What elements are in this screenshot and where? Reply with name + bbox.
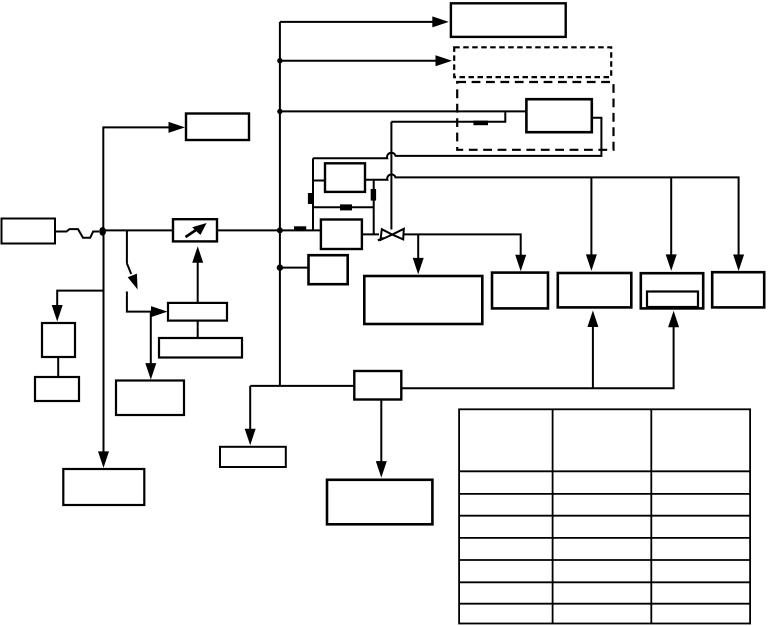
wire squiggle (break symbol) xyxy=(55,229,99,238)
wire main line dot to meter xyxy=(103,229,173,231)
box BC xyxy=(220,447,286,467)
fuse bar middle xyxy=(340,204,352,210)
junction dot bus/side box xyxy=(277,264,283,270)
junction dot at input node xyxy=(99,227,106,236)
wire meter to main bus and lower box xyxy=(217,229,321,231)
wire below switch to box M1 xyxy=(127,292,152,312)
box row 3 xyxy=(558,273,632,307)
box L1 xyxy=(42,323,75,357)
wire box M1 to box M2 xyxy=(197,321,199,338)
box source (input) xyxy=(2,219,56,244)
wire down arrow to box3 xyxy=(590,177,592,255)
wire up branch to box3 xyxy=(592,326,594,388)
junction dot bus/arrow2 xyxy=(277,58,282,63)
wire down arrow to box BC xyxy=(249,386,251,430)
wire valve to box2 with branch xyxy=(404,234,520,255)
box top-right xyxy=(451,3,566,37)
main vertical bus xyxy=(279,22,281,386)
wire middle rung xyxy=(313,206,374,208)
wire second arrow to dotted box xyxy=(280,60,436,62)
switch branch (curved arrow) xyxy=(126,230,128,263)
box BM xyxy=(327,480,432,525)
meter M1 xyxy=(173,219,217,241)
junction dot bus/main line xyxy=(277,227,283,233)
box upper small xyxy=(325,163,365,192)
fuse bar on wire xyxy=(294,226,306,230)
box row 5 xyxy=(712,272,764,307)
table xyxy=(459,409,750,623)
wire branch down to big box xyxy=(417,234,419,259)
dashed enclosure box xyxy=(457,82,613,150)
arrow up from box M1 toward meter xyxy=(197,262,199,303)
wire bottom tee from bus xyxy=(250,385,354,387)
box mid-bottom hub xyxy=(354,371,401,400)
box L2 xyxy=(35,377,79,401)
box row 4 outer xyxy=(641,273,703,308)
wire hub right with up arrows xyxy=(401,326,673,388)
wire branch down to box M3 xyxy=(150,312,152,365)
box M3 xyxy=(116,381,184,416)
box bottom-left xyxy=(63,469,144,505)
wire line A from bus to inner box xyxy=(280,110,527,112)
wire jog and line B with fuse bar xyxy=(391,111,505,121)
box lower small xyxy=(321,220,362,250)
wire from inner box right, down and left with hop xyxy=(313,118,601,159)
wire box right to long bus with hop xyxy=(365,174,739,255)
wire bus down to bottom-left box xyxy=(103,231,105,452)
box row 4 inner xyxy=(647,292,698,308)
fuse bar on line B xyxy=(473,121,488,126)
wire top arrow to top box xyxy=(280,21,433,23)
wire left vertical xyxy=(312,158,314,230)
box top-left xyxy=(186,114,249,141)
wire left branch from bus xyxy=(57,291,103,306)
wire up-left to annunciator box xyxy=(103,127,168,231)
box big (row 1) xyxy=(364,276,482,324)
wire vertical down to valve xyxy=(390,122,392,230)
meter needle xyxy=(186,226,203,237)
arrowhead right into top-left box xyxy=(169,122,186,133)
box inner (in dashed enclosure) xyxy=(526,99,591,132)
box M2 xyxy=(159,338,242,358)
dotted box xyxy=(454,47,611,77)
fuse bar vertical right xyxy=(371,189,376,201)
wire down arrow to box4 xyxy=(670,177,672,255)
wire output through valve xyxy=(362,233,379,235)
wire L1 to L2 xyxy=(57,357,59,377)
wire to upper small box xyxy=(313,180,325,182)
box M1 xyxy=(168,303,227,321)
box side small xyxy=(309,255,348,284)
valve symbol xyxy=(381,229,393,240)
wire hub down to box BM xyxy=(380,400,382,463)
junction dot bus/lineA xyxy=(277,109,282,114)
wire right vertical with fuse bar xyxy=(373,180,375,235)
wire side branch to small box xyxy=(280,267,309,269)
fuse bar vertical left xyxy=(308,193,314,204)
box row 2 xyxy=(492,273,548,309)
